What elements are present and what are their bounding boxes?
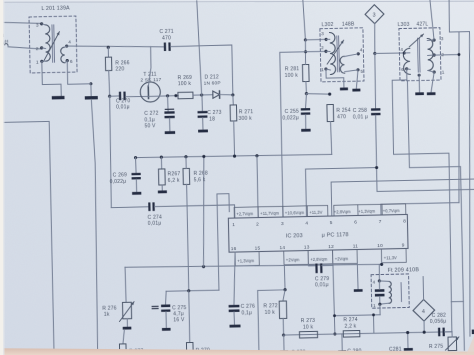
wire C270 to T211 gate	[126, 95, 149, 98]
resistor R275 trimmer	[448, 337, 457, 351]
capacitor C272	[165, 109, 174, 110]
inductor D1 input coil	[0, 44, 8, 46]
wire diamond4 down	[423, 321, 425, 332]
bar pin11 end	[354, 289, 363, 292]
wire C275 top	[165, 291, 166, 304]
pin 2 of L303	[433, 53, 436, 56]
capacitor C274	[148, 202, 150, 211]
ground bar under L302 left	[340, 87, 348, 90]
transformer L303 dashed box	[399, 28, 441, 81]
wire rail to filter pin4	[378, 264, 381, 281]
junction AGC V0	[202, 155, 205, 158]
junction R268	[184, 155, 187, 158]
wire IC pin10 down	[381, 263, 383, 265]
junction pin10 rail	[380, 263, 383, 266]
wire route3	[407, 80, 464, 352]
wire R276 to R277	[123, 330, 125, 344]
wire L302 pin2 corner	[280, 51, 330, 217]
pin 1 of L302	[324, 67, 327, 70]
ground bar under C269	[132, 192, 141, 195]
pin 3 of L302	[325, 38, 328, 41]
resistor R277	[119, 344, 126, 353]
capacitor C281 branch	[407, 333, 409, 348]
IC top voltage label row	[234, 206, 307, 218]
diode D212	[213, 91, 220, 98]
transformer L303 left coil	[403, 48, 410, 74]
wire R272 top	[283, 290, 286, 301]
wire L303 inner ground	[418, 74, 421, 77]
wire pin12 long vertical	[333, 265, 335, 334]
transformer L302 tuning arrow	[327, 40, 344, 64]
capacitor C269	[131, 173, 140, 175]
transformer L201 primary coil	[45, 25, 50, 61]
resistor R270	[186, 342, 193, 351]
wire mid-left long vertical	[91, 99, 99, 354]
wire R268 top	[185, 157, 187, 169]
junction IC pin2 rail	[255, 154, 258, 157]
junction C270 node	[108, 95, 111, 98]
junction C272 top	[166, 94, 169, 97]
wire input coil to L201 pin 2	[8, 46, 42, 50]
capacitor C282	[438, 328, 440, 337]
capacitor C270	[119, 92, 121, 101]
wire route2 L303 pin6	[392, 68, 453, 333]
transformer L303 core	[417, 38, 420, 72]
connector diamond 4	[413, 299, 435, 321]
junction L302 pin4 node	[373, 52, 376, 55]
wire L303 pin3 up	[430, 0, 435, 40]
capacitor C276	[229, 305, 240, 308]
wire R268 to R270	[189, 291, 190, 343]
junction R271 top	[231, 93, 234, 96]
junction C269	[134, 156, 137, 159]
wire AGC rail	[136, 154, 332, 159]
capacitor C255	[301, 108, 310, 110]
ground bar under L201 right	[85, 96, 98, 100]
transformer L302 secondary coil	[340, 56, 345, 73]
wire T211 source to R269	[148, 95, 178, 98]
wire rail corner to R276	[125, 267, 126, 302]
resistor R274	[343, 330, 360, 337]
wire L302 pin1 to ground	[326, 69, 344, 88]
resistor R273	[299, 331, 317, 338]
junction C281	[406, 331, 409, 334]
wire C275 line	[166, 290, 219, 291]
resistor R272	[279, 301, 287, 319]
bar under R276	[123, 327, 132, 330]
pin 1 of L201	[40, 60, 43, 63]
transformer L302 dashed box	[320, 28, 364, 82]
wire C255 top	[305, 94, 307, 109]
wire top vertical to D212 node	[197, 1, 202, 95]
filter coil	[388, 281, 391, 303]
wire R254 bottom	[331, 122, 332, 155]
wire IC pin2 vertical	[257, 156, 258, 218]
pin 6 of L201	[66, 59, 69, 62]
ground bar under L201 left	[52, 96, 65, 100]
pin 2 of L302	[324, 50, 327, 53]
connector diamond 3	[365, 4, 384, 23]
wire IC pin13 down	[308, 264, 315, 266]
pin 4 of L201	[65, 44, 68, 47]
junction diamond4	[423, 331, 426, 334]
junction pin4 route	[375, 166, 378, 169]
junction under L201	[89, 82, 92, 85]
transformer L302 primary coil	[330, 32, 336, 74]
left white paper edge	[0, 0, 3, 355]
wire IC pin7 route	[381, 203, 459, 215]
wire R271 top	[232, 95, 234, 105]
wire left corner vertical	[0, 121, 54, 353]
wire R281 upper	[304, 40, 307, 65]
filter pin 1	[378, 303, 381, 306]
junction V0 rail	[202, 265, 205, 268]
wire AGC to rail vertical	[201, 156, 206, 266]
junction filter branch	[372, 313, 375, 316]
wire right vertical B	[455, 32, 462, 203]
wire C269 to ground	[135, 179, 137, 191]
wire IC pin16 to C276	[233, 252, 236, 305]
junction R281 pin2 wire	[304, 50, 307, 53]
wire filter branch down	[373, 315, 375, 333]
wire diamond4 up	[422, 277, 424, 300]
wire C274 horizontal	[111, 206, 148, 209]
junction R268 C275	[187, 289, 190, 292]
junction R272 bottom	[282, 333, 285, 336]
wire IC pin5 route	[331, 179, 474, 216]
paper bottom pink edge	[0, 348, 474, 355]
pin 6 of L303	[405, 67, 408, 70]
bar under C276	[229, 325, 240, 328]
wire filter bottom route	[335, 314, 381, 317]
pin 3 of L303	[432, 38, 435, 41]
junction pin12 bottom	[333, 332, 336, 335]
wire L303 pin2 to B	[434, 54, 459, 57]
transformer L303 tuning arrow	[409, 34, 424, 47]
wire right top vertical A	[449, 0, 470, 32]
pin 3 of L201	[40, 22, 43, 25]
wire C272 to ground	[169, 118, 171, 131]
transformer L201 tuning arrow	[43, 32, 60, 62]
wire C271 to corner	[171, 45, 233, 96]
wire C276 bottom	[233, 312, 235, 325]
ground bar under L303 right	[427, 92, 436, 95]
wire L201 pin1 to ground	[42, 61, 61, 96]
ground bar under C272	[165, 131, 175, 134]
wire node to L303 pin4	[375, 52, 404, 55]
wire node to C258	[374, 53, 376, 108]
ground bar under C273	[198, 129, 208, 132]
wire C275 bottom	[165, 312, 167, 328]
junction before D212	[200, 93, 203, 96]
wire R275 top	[451, 332, 453, 337]
wire R281 top vertical	[303, 0, 306, 40]
wire bottom line	[284, 332, 452, 336]
capacitor C258	[371, 108, 380, 111]
capacitor C273	[198, 111, 208, 114]
wire C269 top	[135, 158, 138, 173]
pin 1 of L303	[433, 70, 436, 73]
wire C255 node to R254	[306, 93, 329, 94]
ground bar under C255	[301, 129, 310, 132]
wire R281 lower	[305, 82, 308, 94]
junction R281 bottom	[305, 92, 308, 95]
wire L302 pin5 to ground	[356, 70, 358, 89]
wire L201 pin6 to ground	[67, 60, 91, 96]
transformer L302 core	[336, 36, 339, 72]
ground bar under L302 right	[352, 89, 360, 92]
capacitor C278 branch	[283, 335, 285, 350]
filter coil top wire	[379, 280, 388, 283]
capacitor C280 branch	[341, 334, 343, 351]
junction filter route	[333, 314, 336, 317]
junction R281 top	[304, 38, 307, 41]
filter Ft209 dashed box	[371, 274, 409, 308]
wire C258 down	[375, 113, 474, 191]
wire bias vertical to C274	[109, 96, 112, 207]
junction R271 rail	[233, 155, 236, 158]
wire IC pin11 down	[356, 263, 359, 289]
filter internal cap	[375, 289, 385, 292]
capacitor C273 wire	[201, 95, 203, 111]
transistor T211	[140, 82, 160, 102]
wire R272 bottom	[282, 318, 284, 335]
wire C282 to corner	[445, 331, 452, 333]
ground bar under L303 left	[415, 92, 424, 95]
wire R266 bottom	[108, 71, 111, 97]
wire C273 to ground	[202, 118, 204, 130]
wire R268 bottom long	[187, 184, 189, 290]
pin 4 of L303	[403, 51, 406, 54]
capacitor C271	[164, 43, 166, 52]
wire IC pin14 route	[257, 265, 286, 350]
filter internal wire	[378, 281, 380, 289]
IC bottom voltage label row	[235, 252, 259, 266]
junction R272 top	[283, 288, 286, 291]
transformer L201 secondary coil	[61, 47, 65, 63]
transformer L201 core	[51, 25, 54, 62]
resistor R271	[230, 105, 237, 121]
pin 5 of L302	[356, 68, 359, 71]
resistor R281	[302, 64, 309, 81]
wire R271 bottom	[233, 121, 236, 156]
wire right vertical C	[464, 32, 474, 337]
ground bar under C275	[162, 328, 171, 331]
junction pin2-B	[458, 53, 461, 56]
wire R267 to ground	[161, 185, 163, 190]
wire right stub corner	[451, 300, 463, 302]
capacitor C279	[315, 264, 317, 274]
capacitor C277	[255, 352, 262, 355]
wire R276 bottom	[126, 319, 128, 327]
filter pin 4	[378, 279, 381, 282]
wire IC pin4 route	[306, 168, 378, 217]
wire L303 pin1 to ground	[431, 72, 435, 92]
resistor R268	[183, 168, 190, 184]
wire L201 pin4 to C271	[67, 44, 164, 49]
transformer L303 right coil	[427, 38, 433, 70]
wire R269 to D212	[193, 94, 213, 97]
wire IC pin12 down	[322, 264, 333, 266]
pin 2 of L201	[40, 46, 43, 49]
wire filter pin1 down	[379, 304, 381, 314]
junction R267	[160, 156, 163, 159]
wire diamond3 down	[374, 24, 375, 54]
junction R254 top	[328, 93, 331, 96]
wire C270 left	[110, 95, 119, 97]
resistor R269	[178, 92, 193, 99]
wire input from left edge to L201 pin 3	[0, 21, 42, 24]
wire R266 top	[107, 47, 109, 57]
wire C274 to IC pin1	[155, 205, 235, 220]
capacitor C275	[152, 306, 159, 307]
resistor R276 trimmer	[122, 302, 131, 319]
transformer L201 dashed box	[29, 16, 77, 73]
junction R266 top	[107, 46, 110, 49]
wire to L302 pin3	[305, 38, 326, 41]
pin 4 of L302	[357, 52, 360, 55]
ground bar under R267	[158, 190, 167, 193]
resistor R267	[159, 169, 166, 185]
resistor R254	[327, 104, 334, 121]
wire C255 to ground	[305, 115, 307, 129]
capacitor C272 wire	[167, 96, 170, 112]
wire supply rail	[125, 262, 382, 270]
wire C275 to pin1 route	[217, 194, 231, 291]
wire T211 drain up	[148, 47, 152, 87]
wire D212 to node	[220, 93, 233, 96]
wire R267 top	[160, 157, 162, 169]
edge blob	[472, 329, 474, 334]
IC U203 box	[228, 214, 408, 252]
resistor R266	[105, 57, 111, 71]
